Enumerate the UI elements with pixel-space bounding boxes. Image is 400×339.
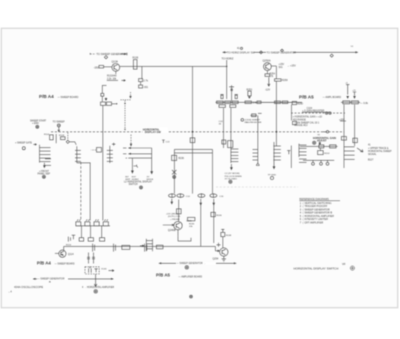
svg-text:TO HORIZ DISPLAY SW: TO HORIZ DISPLAY SW <box>227 51 255 54</box>
delay line block <box>140 239 153 252</box>
svg-text:— SWEEP BOARD: — SWEEP BOARD <box>58 96 79 99</box>
wafer4 ground <box>256 163 259 166</box>
selector bus wire lower <box>174 152 212 154</box>
cam switch chain dashed line <box>51 131 344 133</box>
node diamond <box>259 51 262 54</box>
wire drop right <box>212 149 214 193</box>
row contact 4 <box>103 219 108 225</box>
wire center chain down <box>178 200 180 222</box>
trimmer node <box>313 141 316 144</box>
ident label block <box>313 134 336 142</box>
drop wires <box>82 226 102 238</box>
base wire <box>55 252 59 254</box>
mag register note <box>241 119 262 124</box>
svg-text:HORIZ: HORIZ <box>132 179 139 181</box>
wire <box>140 82 142 85</box>
wire emitter down <box>266 71 268 74</box>
lower node circles <box>312 160 329 165</box>
right bias feed upper <box>345 82 349 99</box>
svg-text:R116: R116 <box>66 244 72 246</box>
switch position label left <box>125 177 131 181</box>
right drop arrow <box>150 171 153 174</box>
resistor R246 <box>211 212 223 217</box>
svg-text:+ PROBE: + PROBE <box>170 219 180 221</box>
junction plus <box>217 243 221 247</box>
note node circle <box>140 186 143 189</box>
svg-text:P/B A5: P/B A5 <box>156 272 171 277</box>
junction X <box>172 170 176 178</box>
tick label <box>162 140 170 144</box>
svg-text:TP GND: TP GND <box>268 174 277 176</box>
svg-text:+ 10k SWEEP CAL 10:1: + 10k SWEEP CAL 10:1 <box>294 122 319 125</box>
svg-text:— AMPLIFIER BOARD: — AMPLIFIER BOARD <box>178 276 202 279</box>
row wire extension <box>261 101 292 103</box>
resistor R133 <box>101 93 104 96</box>
svg-text:ADJ RANGE: ADJ RANGE <box>293 118 307 121</box>
second row resistor c <box>230 105 236 108</box>
wire to sweep generator (dashed label line) <box>90 52 127 56</box>
node arrows junction <box>122 80 126 82</box>
gain register label <box>302 108 330 113</box>
gain register dashed line <box>291 112 345 114</box>
row capacitor 4 <box>245 101 251 104</box>
svg-text:— SWEEP BOARD: — SWEEP BOARD <box>55 263 75 266</box>
gain row resistor 1 <box>319 145 324 148</box>
left edge vertical <box>290 146 292 169</box>
row resistor 5 <box>257 101 261 104</box>
series marks <box>145 244 147 252</box>
transistor Q250A <box>263 59 272 71</box>
svg-text:P/B A5: P/B A5 <box>299 94 314 99</box>
svg-text:4 → HORIZONTAL AMPLIFIER: 4 → HORIZONTAL AMPLIFIER <box>82 286 114 289</box>
ground label <box>268 174 277 179</box>
potentiometer R135 sweep cal <box>101 102 118 105</box>
svg-text:RANGE ADJ: RANGE ADJ <box>294 124 307 127</box>
left small wafer <box>299 144 307 163</box>
junction dot <box>226 66 227 67</box>
svg-text:+ END: + END <box>32 123 39 125</box>
ground under Q254 <box>222 256 226 261</box>
svg-text:R136: R136 <box>133 57 139 60</box>
wire corner into Q114 <box>63 246 65 250</box>
svg-text:L2 HORIZONTAL DISPLAY: L2 HORIZONTAL DISPLAY <box>124 181 152 184</box>
contact mark <box>287 151 290 155</box>
resistor R232 <box>190 138 195 143</box>
resistor R253 <box>247 89 253 98</box>
svg-text:→ +15V: → +15V <box>287 65 296 68</box>
svg-text:Q114: Q114 <box>68 253 74 256</box>
resistor R236 <box>172 155 185 160</box>
wire down from collector <box>275 66 277 79</box>
svg-text:TO SWEEP: TO SWEEP <box>53 121 66 123</box>
svg-text:(DCPL) C24: (DCPL) C24 <box>168 216 181 218</box>
relay dashed box K140 <box>85 266 99 274</box>
junction diamond <box>66 140 69 143</box>
wire <box>101 96 103 101</box>
svg-text:SIGNAL: SIGNAL <box>368 153 377 156</box>
bottom rail wire <box>64 245 216 247</box>
net label C24 <box>219 121 224 126</box>
resistor R131 <box>99 65 104 68</box>
dcpl label <box>166 213 181 220</box>
resistor B2 <box>88 238 93 242</box>
bias resistor RC <box>235 95 238 99</box>
svg-text:434A OSCILLOSCOPE: 434A OSCILLOSCOPE <box>14 285 43 289</box>
svg-text:R236: R236 <box>178 158 184 160</box>
horizontal display switch note <box>124 181 152 187</box>
wire emitter <box>115 71 117 74</box>
series resistor RB1 <box>122 245 130 249</box>
junction dot on cam line <box>192 131 194 133</box>
G8: reference text block and footer <box>294 198 355 270</box>
G3: dashed cam lines <box>51 112 345 134</box>
switch position label left2 <box>132 177 139 181</box>
row contact 2 <box>85 219 90 225</box>
wafer feed arrow <box>43 163 46 168</box>
svg-text:P/B A4: P/B A4 <box>37 261 52 266</box>
svg-text:TO HORIZ: TO HORIZ <box>222 57 234 60</box>
capacitor C112 <box>68 235 75 241</box>
wire <box>104 66 112 68</box>
row end resistor right <box>292 101 303 105</box>
svg-text:—◦ 6.8k: —◦ 6.8k <box>360 103 369 105</box>
svg-text:-12V (2R10): -12V (2R10) <box>166 213 178 215</box>
G7: bottom band <box>8 219 236 298</box>
capacitor pair CB <box>114 244 116 252</box>
G1: top-left cluster <box>39 52 227 130</box>
wire A collector line <box>120 65 227 67</box>
svg-text:+ HORIZONTAL GAIN ÷ +10: + HORIZONTAL GAIN ÷ +10 <box>293 116 323 119</box>
sweep generator line <box>33 277 113 283</box>
resistor R208 <box>353 138 358 142</box>
selector bus wire upper <box>174 148 212 150</box>
series resistor RB2 <box>156 245 163 249</box>
switch wafer 3 <box>231 148 239 163</box>
svg-text:B127: B127 <box>368 159 374 161</box>
wire vertical feed <box>226 60 228 99</box>
svg-text:— AMPL BOARD: — AMPL BOARD <box>323 96 342 99</box>
resistor R238 <box>177 209 193 223</box>
svg-text:R260: R260 <box>297 103 303 105</box>
horizontal amplifier label <box>82 286 114 293</box>
+15V feed blob <box>339 119 346 121</box>
long vertical left contact chain <box>200 199 202 247</box>
sheet title <box>294 263 355 270</box>
wire rail into Q254 <box>214 246 216 250</box>
note node <box>229 180 232 183</box>
pot feed arrow <box>105 98 108 101</box>
svg-text:R104: R104 <box>44 134 50 136</box>
left drop wire <box>131 158 133 171</box>
switch contact pair B <box>198 193 224 197</box>
svg-text:+ UPPER TRACE &: + UPPER TRACE & <box>368 147 389 150</box>
switch position label right <box>147 177 154 181</box>
node circle below line <box>185 266 188 269</box>
base arrow Q254 <box>215 250 219 252</box>
relay label <box>101 269 114 272</box>
sweep gate input label <box>15 142 37 150</box>
horizontal display switch label on cam line <box>143 127 169 134</box>
switch wafer 5 <box>273 142 280 160</box>
svg-text:-150: -150 <box>94 65 100 69</box>
svg-text:REFERENCE DIAGRAMS: REFERENCE DIAGRAMS <box>299 198 329 201</box>
linkage dashed vertical to selector <box>130 135 132 147</box>
bias resistor RA <box>220 95 223 99</box>
resistor R244 <box>188 217 196 225</box>
sheet node mark <box>190 295 193 298</box>
caps to ground pair <box>87 253 95 264</box>
svg-text:R246: R246 <box>216 215 222 217</box>
svg-text:R202: R202 <box>324 153 330 155</box>
wire L-branch <box>102 85 106 93</box>
wire branch from collector bus <box>192 66 194 193</box>
lower switch row rail <box>76 225 111 227</box>
G6: right-mid band <box>216 105 392 188</box>
junction dot wafer5 feed <box>276 131 278 133</box>
wire <box>141 66 143 79</box>
svg-text:SWP: SWP <box>125 179 131 181</box>
sweep start/end label <box>30 120 47 129</box>
right wafer ticks <box>344 147 355 160</box>
capacitor C102 <box>293 121 297 124</box>
svg-text:2.7k: 2.7k <box>143 79 148 82</box>
+15V signal label <box>279 63 297 69</box>
P/B A4 lower label <box>37 261 75 266</box>
long vertical right contact chain <box>213 199 215 243</box>
faint linkage band <box>216 186 298 188</box>
svg-text:SIG: SIG <box>279 66 283 69</box>
right bias feed lower <box>352 90 356 99</box>
node junction diamond <box>104 56 107 59</box>
svg-text:Q240B: Q240B <box>168 229 176 232</box>
wire into cam line <box>58 127 60 132</box>
selector bus wire 3 <box>126 157 152 159</box>
resistor R108 <box>59 135 65 140</box>
svg-text:A40: A40 <box>113 75 118 78</box>
row contact 3 <box>94 219 99 225</box>
svg-text:R245: R245 <box>189 223 195 225</box>
right row resistor 1 <box>343 101 350 104</box>
wire long drop to wafer <box>275 81 277 146</box>
front panel label <box>38 171 51 178</box>
transistor Q254 <box>213 248 229 261</box>
svg-text:.001: .001 <box>143 86 148 89</box>
second row resistor b <box>219 105 225 108</box>
row contact 1 <box>76 219 81 225</box>
resistor R104 <box>44 134 53 140</box>
G5: center band <box>56 66 224 246</box>
divider row wire <box>216 101 303 103</box>
P/B A5 lower label <box>156 272 202 278</box>
G4: left-mid cluster <box>15 120 65 179</box>
contact drop arrow B2 <box>212 203 215 206</box>
linkage vertical dashed to cam line <box>124 100 126 130</box>
cam node circles <box>325 112 331 114</box>
wafer terminal boxes <box>222 140 233 148</box>
wire long vertical from pot <box>102 105 104 220</box>
switch contact pair A <box>169 193 191 197</box>
G2: top-right cluster <box>216 46 369 146</box>
horiz display cal label <box>293 116 323 128</box>
svg-text:SWITCH: SWITCH <box>129 184 138 186</box>
node diamond 2 <box>330 54 333 57</box>
row resistor 3 <box>232 101 238 104</box>
wire long vertical left dashed <box>80 162 82 221</box>
svg-text:7〈 CRT AMPLIFIER: 7〈 CRT AMPLIFIER <box>300 221 324 225</box>
coupling box C206 <box>250 113 261 116</box>
wafer wiper arrow <box>230 164 233 170</box>
selector bus wire 2 <box>123 153 152 155</box>
svg-text:←4: ←4 <box>8 291 12 294</box>
svg-text:VR: VR <box>342 263 346 266</box>
pot R202 <box>318 148 331 155</box>
resistor R254 <box>265 73 276 78</box>
xy mode note <box>225 173 242 180</box>
wire corner to right drop <box>77 163 90 221</box>
lower row wire <box>303 159 334 161</box>
node circle <box>237 47 243 49</box>
transistor Q114 <box>59 250 74 257</box>
svg-text:SWEEP START: SWEEP START <box>30 120 47 123</box>
interconnect line to horizontal display switch <box>223 51 359 55</box>
row resistor 6 <box>275 101 281 104</box>
resistor R206 <box>341 137 346 141</box>
resistor R137 <box>139 79 149 83</box>
output arrow <box>357 148 363 152</box>
reference diagrams list <box>299 198 340 225</box>
capacitor pair CA <box>93 244 95 252</box>
row resistor 2 <box>225 101 231 104</box>
svg-text:MAG REGISTER: MAG REGISTER <box>245 121 262 124</box>
xy-mode wafer feed wires <box>224 108 231 148</box>
row resistor 7 <box>282 101 288 104</box>
wire collector right <box>271 65 276 67</box>
svg-text:K140: K140 <box>101 269 107 271</box>
trimmer arrow <box>319 142 322 146</box>
linkage dashed vertical <box>67 133 69 141</box>
wire corner to contact <box>178 236 191 241</box>
gain row resistor 2 <box>330 145 336 148</box>
capacitor C137 <box>139 85 149 89</box>
svg-text:HORIZONTAL SWEEP: HORIZONTAL SWEEP <box>368 150 392 153</box>
wire into Q254 <box>222 237 224 248</box>
resistor B3 <box>100 238 105 242</box>
feed to horizontal amplifier <box>94 274 97 287</box>
svg-text:+ SWEEP GATE: + SWEEP GATE <box>15 142 32 145</box>
emitter bias label block <box>107 75 118 81</box>
switch wafer 3 left <box>107 143 116 163</box>
wire to wafer <box>69 142 76 145</box>
transistor Q134 <box>112 60 120 72</box>
coupling cap C110 <box>91 148 102 153</box>
switch wafer 2 <box>75 146 81 163</box>
right drop wire <box>151 148 153 173</box>
svg-text:Q134: Q134 <box>112 60 119 64</box>
svg-text:DISPLAY·SW: DISPLAY·SW <box>145 130 162 134</box>
cam crossing node <box>323 131 329 133</box>
gain register bracket <box>291 105 293 121</box>
svg-text:TO SWEEP GENERATOR: TO SWEEP GENERATOR <box>267 51 297 54</box>
svg-text:Q250A: Q250A <box>263 59 271 63</box>
svg-text:HORIZONTAL DISPLAY SWITCH: HORIZONTAL DISPLAY SWITCH <box>294 266 339 270</box>
long vertical right pair <box>344 105 355 169</box>
svg-text:— SWEEP GENERATOR →: — SWEEP GENERATOR → <box>177 262 206 265</box>
row resistor 1 <box>217 101 224 104</box>
to sweep label <box>53 121 66 127</box>
selector bus wire 1 <box>123 147 152 149</box>
svg-text:R248: R248 <box>226 235 232 237</box>
svg-text:+ X GAIN REGISTER: + X GAIN REGISTER <box>302 109 324 112</box>
right row resistor 2 <box>351 101 358 104</box>
transistor Q240B <box>163 221 182 232</box>
svg-text:R108: R108 <box>59 135 65 137</box>
svg-text:— SWEEP GENERATOR: — SWEEP GENERATOR <box>37 278 65 281</box>
ground arrow <box>268 77 270 86</box>
svg-text:R258: R258 <box>282 80 288 82</box>
resistor B1 <box>79 238 84 242</box>
left drop arrow <box>131 171 134 174</box>
resistor R251 <box>229 85 234 101</box>
contact drop arrow A <box>171 199 174 205</box>
switch wafer 4 <box>253 116 258 163</box>
linkage arrow from above <box>129 92 131 99</box>
pickoff tick <box>133 165 137 168</box>
wire below Q240B <box>177 230 179 237</box>
center amp vertical wire <box>173 149 175 193</box>
svg-text:MODE: MODE <box>147 179 154 181</box>
svg-text:P/B A4: P/B A4 <box>39 94 54 99</box>
svg-text:-12V: -12V <box>265 89 270 92</box>
right row wire <box>341 101 360 103</box>
node tick <box>281 49 284 52</box>
gain row wire <box>300 145 338 147</box>
mechanical linkage dashes <box>121 99 131 101</box>
resistor R136 <box>133 57 139 70</box>
contact drop arrow B1 <box>199 203 202 206</box>
svg-text:ADJUST: ADJUST <box>317 140 327 143</box>
svg-text:Q254: Q254 <box>213 258 220 261</box>
wire stub below to-sweep node <box>55 134 57 143</box>
wafer5 ground arrow <box>273 160 276 169</box>
switch wafer 1A <box>40 145 52 166</box>
resistor R248 <box>221 229 232 237</box>
P/B A4 board label <box>39 94 79 99</box>
resistor R258 <box>275 79 289 82</box>
P/B A5 board label <box>299 94 341 99</box>
bottom interconnect line <box>159 262 237 265</box>
output note <box>368 145 392 162</box>
